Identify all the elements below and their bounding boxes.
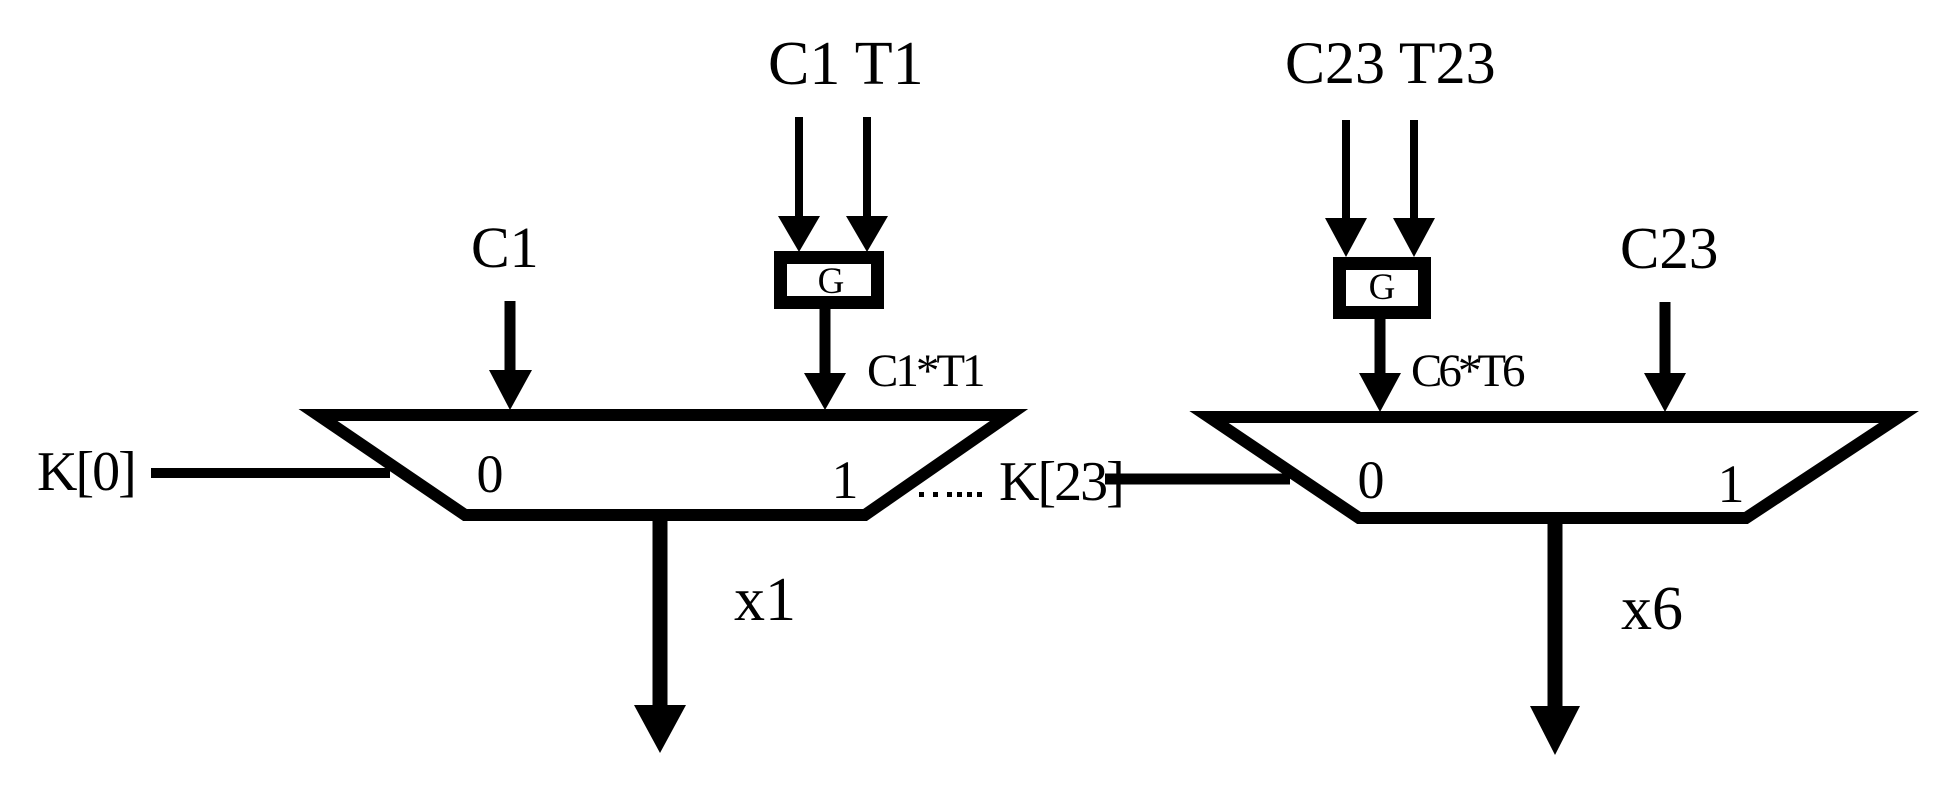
wire T1 into gate G1 [846,117,888,252]
wire C1 into gate G1 [778,117,820,252]
ellipsis dots between muxes [919,492,982,497]
mux M2 trapezoid [1209,417,1899,518]
svg-text:0: 0 [1358,450,1385,510]
wire gate G2 output to mux M2 input 0 [1359,319,1401,412]
svg-text:C23: C23 [1620,215,1718,281]
svg-text:G: G [818,261,845,302]
gate G2 box [1340,264,1425,313]
mux M1 output arrow [634,515,686,753]
wire K[23] select into mux M2 [1105,474,1290,485]
wire K[0] select into mux M1 [151,468,390,478]
mux M1 trapezoid [318,415,1009,515]
gate G1 box [781,258,878,303]
svg-text:1: 1 [832,450,859,510]
wire C23 into gate G2 [1325,120,1367,257]
wire C1 into mux M1 input 0 [489,301,532,410]
svg-text:1: 1 [1718,454,1745,514]
svg-text:C1: C1 [471,215,539,280]
svg-text:0: 0 [477,444,504,504]
svg-text:K[23]: K[23] [999,451,1123,513]
wire T23 into gate G2 [1393,120,1435,257]
svg-text:G: G [1369,267,1396,308]
mux M2 output arrow [1530,518,1580,755]
svg-text:x6: x6 [1621,575,1683,643]
svg-text:C1*T1: C1*T1 [867,345,983,397]
wire gate G1 output to mux M1 input 1 [804,309,846,410]
svg-text:C23 T23: C23 T23 [1285,30,1496,96]
svg-text:K[0]: K[0] [37,441,135,503]
svg-text:x1: x1 [734,566,796,634]
wire C23 into mux M2 input 1 [1644,302,1686,412]
svg-text:C1 T1: C1 T1 [768,30,924,98]
svg-text:C6*T6: C6*T6 [1411,345,1525,397]
